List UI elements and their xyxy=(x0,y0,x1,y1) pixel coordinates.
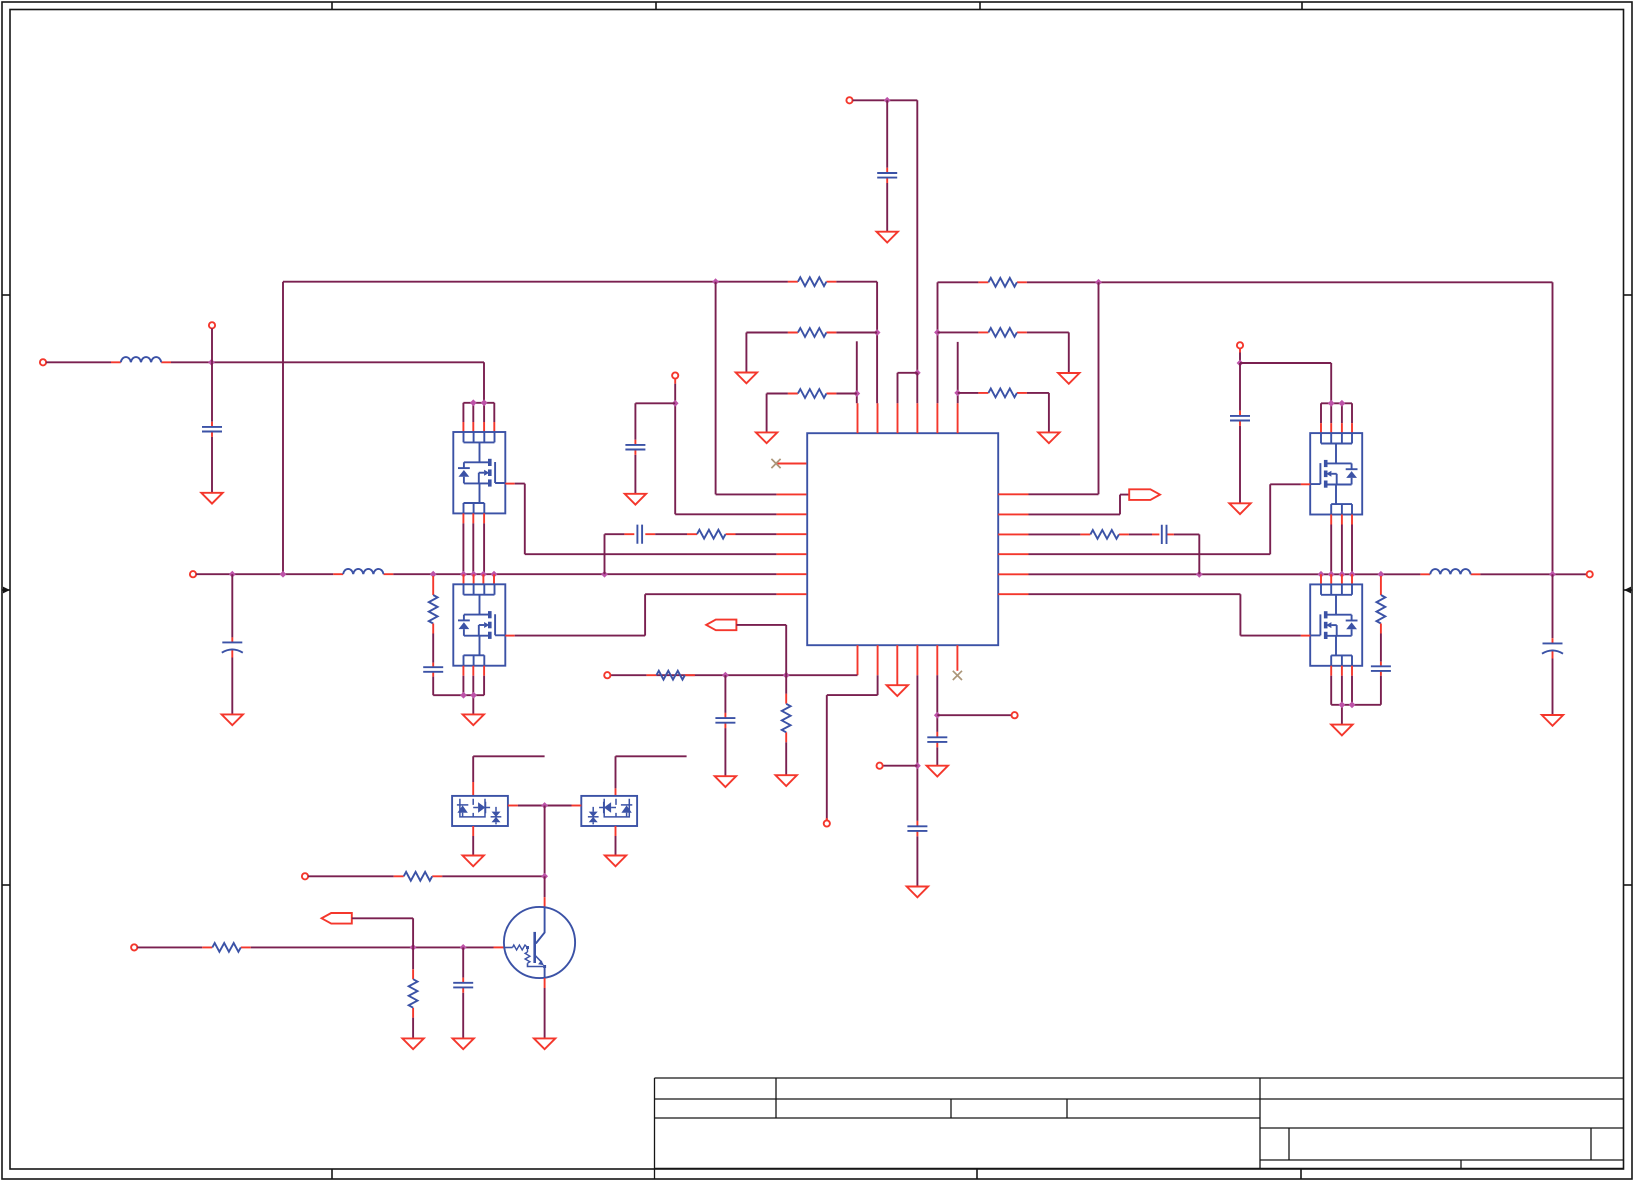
junction right bus q4 pin1 xyxy=(1318,571,1325,578)
wire P13 to resistor xyxy=(137,946,202,948)
capacitor C-bg xyxy=(453,983,473,988)
port P8 xyxy=(604,672,610,678)
wire C7 to bus corner xyxy=(1174,534,1199,574)
U1 bottom pin B4 xyxy=(916,645,918,675)
resistor R-row2-right xyxy=(988,328,1017,337)
wire R1 column vertical xyxy=(1029,282,1099,494)
resistor R-row2-right lead red xyxy=(978,331,1027,333)
capacitor CB1 leads red xyxy=(724,713,726,728)
wire diode link down to collector row xyxy=(544,806,546,877)
resistor R-row3-left xyxy=(798,389,827,398)
transistor Q3 upper-right MOSFET xyxy=(1310,433,1362,514)
port P5 red stub xyxy=(674,379,676,384)
wire row2-right to ground corner xyxy=(1027,332,1069,373)
transistor Q4 lower-right MOSFET xyxy=(1310,584,1362,665)
Q5 base pin red xyxy=(494,946,505,948)
junction at top cap xyxy=(884,97,891,104)
resistor R-B1b vertical xyxy=(782,704,791,733)
snubber resistor R-sn-left xyxy=(429,595,438,624)
ground row2-left xyxy=(736,373,757,384)
junction B1 row at cap xyxy=(722,672,729,679)
wire pin B2 to port P9 xyxy=(827,675,878,820)
wire top-right bus vertical to pin5 xyxy=(937,282,939,403)
series cap C4 leads red xyxy=(624,533,655,535)
junction pin4 jog xyxy=(914,369,921,376)
wire flag to B1 row xyxy=(736,625,786,675)
junction right rail b xyxy=(1349,701,1356,708)
Q5 emitter pin red xyxy=(544,978,546,988)
wire pin C net vertical xyxy=(675,384,776,515)
border tick top x=980 xyxy=(979,2,981,10)
wire cap C1 branch xyxy=(211,362,213,421)
wire pin6 stub vertical xyxy=(957,342,959,403)
wire C6 branch xyxy=(1552,574,1554,638)
U1 top pin 3 xyxy=(897,403,899,433)
wire pinB vertical xyxy=(716,282,777,495)
junction B5 at port P11 xyxy=(934,712,941,719)
inductor L1 leads red xyxy=(111,361,171,363)
net flag left-pointing low xyxy=(322,913,352,924)
capacitor C3 xyxy=(625,445,645,450)
ground row2-right xyxy=(1058,373,1079,384)
snubber resistor R-sn-right xyxy=(1377,595,1386,624)
U1 right pin R2 xyxy=(998,513,1028,515)
capacitor C3 leads red xyxy=(634,440,636,455)
wire top supply vertical down to pin4 jog xyxy=(916,100,918,373)
U1 left pin E xyxy=(776,553,806,555)
wire R-col to collector node xyxy=(442,875,544,877)
capacitor C5 leads red xyxy=(1239,411,1241,426)
wire pin B4 vertical xyxy=(916,675,918,821)
transistor Q5 digital BJT xyxy=(504,907,575,978)
D1 bottom pin red xyxy=(472,826,474,836)
U1 top pin 2 xyxy=(877,403,879,433)
diode pack D2 (mirrored) xyxy=(581,796,637,826)
wire cap C5 branch xyxy=(1239,363,1241,411)
junction row1-right at R1 column xyxy=(1095,279,1102,286)
port P5 xyxy=(672,372,678,378)
U1 right pin R5 xyxy=(998,573,1028,575)
upper-left MOSFET gate jog wire xyxy=(463,403,494,422)
inductor L2 leads red xyxy=(333,573,393,575)
wire jog to pin3 xyxy=(898,373,918,403)
border tick bottom x=977 xyxy=(976,1169,978,1179)
junction gate jog d xyxy=(1339,400,1346,407)
resistor R-row2-left xyxy=(798,328,827,337)
wire base resistor drop xyxy=(412,947,414,969)
U1 top pin 6 xyxy=(957,403,959,433)
wire row3-left xyxy=(767,393,788,395)
ground under pin B3 xyxy=(887,685,908,696)
D1 right pin red xyxy=(508,805,518,807)
wire res RB2 branch xyxy=(785,675,787,694)
Q2 bottom pins red xyxy=(463,666,484,676)
border arrow marker right xyxy=(1624,587,1632,594)
capacitor C2 leads red xyxy=(231,637,233,657)
snubber capacitor C-sn-left xyxy=(423,667,443,672)
wire CB5 to ground xyxy=(936,747,938,765)
ground under C1 xyxy=(201,493,222,504)
wire P10 to B4 xyxy=(883,765,918,767)
U1 bottom pin B3 xyxy=(896,645,898,685)
port P6 red stub xyxy=(1239,348,1241,352)
junction row3-left right end xyxy=(853,390,860,397)
border tick top x=656 xyxy=(655,2,657,10)
port P12 collector row xyxy=(302,873,308,879)
resistor R-col leads red xyxy=(394,875,443,877)
ground under top cap xyxy=(877,232,898,243)
ground under D2 xyxy=(605,856,626,867)
junction bottom rail b xyxy=(470,692,477,699)
capacitor C-top xyxy=(877,173,897,178)
transistor Q2 lower-left MOSFET xyxy=(453,584,505,665)
junction mid bus q2 pin1 xyxy=(460,571,467,578)
resistor R-row1-right lead red xyxy=(978,281,1027,283)
junction row3-right left end xyxy=(954,390,961,397)
no-connect X on U1 bottom pin B6 xyxy=(953,671,962,680)
snubber C leads red xyxy=(432,663,434,677)
wire C2 branch xyxy=(231,574,233,637)
wire snubber right C to rail xyxy=(1331,676,1381,705)
title block frame xyxy=(655,1078,1624,1179)
wire top cap upper lead xyxy=(886,100,888,168)
wire P2 down xyxy=(211,328,213,362)
junction base bus at cap xyxy=(460,944,467,951)
wire row2-right xyxy=(938,331,979,333)
series resistor R-R3 leads red xyxy=(1080,533,1129,535)
junction mid bus at RC row xyxy=(601,571,608,578)
diode pack D1 xyxy=(452,796,508,826)
ground under C-bg xyxy=(453,1038,474,1049)
wire base cap drop xyxy=(462,947,464,977)
wire flag to base bus xyxy=(352,918,413,947)
inductor L1 xyxy=(121,357,161,362)
resistor R-row1-left xyxy=(798,277,827,286)
junction mid bus at snubber xyxy=(430,571,437,578)
wire snubber right R to C xyxy=(1380,634,1382,662)
capacitor C6 polarized xyxy=(1542,643,1563,653)
wire C2 to ground xyxy=(231,658,233,715)
ground under R-B1b xyxy=(776,775,797,786)
wire R-B1 to port P8 xyxy=(610,674,646,676)
border tick bottom x=1301 xyxy=(1300,1169,1302,1179)
wires Q3 bottom pins to mid bus xyxy=(1331,525,1352,575)
capacitor CB4 leads red xyxy=(916,821,918,836)
wire B5 to port P11 xyxy=(937,714,1011,716)
U1 left pin B xyxy=(776,493,806,495)
transistor Q1 upper-left MOSFET xyxy=(453,432,505,513)
upper-left MOSFET top pins red xyxy=(463,422,494,432)
ground under C6 xyxy=(1542,715,1563,726)
op IC U1 xyxy=(807,433,998,645)
capacitor C6 leads red xyxy=(1552,638,1554,658)
inductor L2 xyxy=(343,569,383,574)
wire pin R3 RC row xyxy=(1029,533,1081,535)
junction right input node xyxy=(1237,360,1244,367)
U1 bottom pin B1 xyxy=(857,645,859,675)
wire D1 to D2 link xyxy=(518,805,572,807)
junction gate jog c xyxy=(1328,400,1335,407)
D2 bottom pin red xyxy=(615,826,617,836)
wire Q4 out to pin R6 xyxy=(1029,594,1301,635)
wire snubber R to C xyxy=(432,634,434,663)
wire pin R2 to flag xyxy=(1029,495,1130,515)
resistor R-row2-left lead red xyxy=(788,332,837,334)
ground under Q5 emitter xyxy=(534,1038,555,1049)
junction pin C cap branch xyxy=(672,400,679,407)
no-connect X on U1 left pin xyxy=(771,459,780,468)
port P6 right input xyxy=(1237,342,1243,348)
junction right bus q4 pin3 xyxy=(1339,571,1346,578)
net flag right-pointing xyxy=(1129,489,1160,500)
snubber R lead red bottom xyxy=(432,624,434,634)
port P9 xyxy=(824,820,830,826)
border tick top x=332 xyxy=(331,2,333,10)
port P13 base row xyxy=(131,944,137,950)
U1 right pin R3 xyxy=(998,533,1028,535)
wire collector down to Q5 xyxy=(544,876,546,897)
wire D1 bottom to ground xyxy=(472,836,474,856)
wire snubber C to bottom rail xyxy=(433,677,484,696)
junction right rail a xyxy=(1339,701,1346,708)
wire P1 to inductor xyxy=(46,361,111,363)
wire right input to gate corner xyxy=(1240,363,1331,403)
ground under C2 xyxy=(222,714,243,725)
D1 top pin red xyxy=(472,782,474,796)
series resistor R-D xyxy=(697,530,726,539)
junction right bus at vertical drop xyxy=(1549,571,1556,578)
U1 left pin D xyxy=(776,533,806,535)
wire R-D to pin D xyxy=(736,533,777,535)
border tick right y=295 xyxy=(1624,294,1633,296)
capacitor C-bg leads red xyxy=(462,978,464,993)
resistor R-row3-right xyxy=(988,389,1017,398)
U1 right pin R6 xyxy=(998,593,1028,595)
junction right bus at snubber xyxy=(1378,571,1385,578)
wire C5 to ground xyxy=(1239,426,1241,503)
ground under CB4 xyxy=(907,887,928,898)
junction diode link xyxy=(541,802,548,809)
Q4 bottom pins red xyxy=(1331,666,1352,676)
Q1 source out pin red xyxy=(505,483,514,485)
resistor R-base leads red xyxy=(202,946,251,948)
border arrow marker left xyxy=(2,587,10,594)
U1 left pin C xyxy=(776,513,806,515)
wire cap CB1 branch xyxy=(724,675,726,713)
port P11 xyxy=(1012,712,1018,718)
resistor R-B1 leads red xyxy=(646,674,695,676)
lower-left MOSFET top pins red xyxy=(464,574,495,584)
U1 bottom pin B5 xyxy=(936,645,938,675)
wires Q2 bottom pins to rail xyxy=(463,676,484,715)
border tick left y=885 xyxy=(2,884,10,886)
capacitor CB1 xyxy=(715,718,735,723)
wire P6 to junction xyxy=(1239,353,1241,364)
resistor R-row1-left lead red xyxy=(788,281,837,283)
wires Q4 bottom pins to rail xyxy=(1331,676,1352,725)
wire L1 to gate corner xyxy=(171,362,484,403)
Q2 source out pin red xyxy=(505,635,514,637)
resistor R-B1b leads red xyxy=(785,694,787,743)
wire R-R3 to C7 xyxy=(1129,533,1152,535)
border tick bottom x=332 xyxy=(331,1169,333,1179)
snubber R lead red top xyxy=(432,576,434,595)
series resistor R-D leads red xyxy=(687,533,736,535)
U1 left pin G xyxy=(776,593,806,595)
D2 left pin red xyxy=(572,805,582,807)
snubber R lead red top right xyxy=(1380,576,1382,595)
wire mid-right bus xyxy=(1029,573,1421,575)
border tick left y=295 xyxy=(2,294,10,296)
ground under CB5 xyxy=(927,766,948,777)
junction base bus at flag xyxy=(410,944,417,951)
wire cap C3 branch xyxy=(635,403,675,439)
capacitor CB5 xyxy=(927,737,947,742)
wire base bus xyxy=(251,946,494,948)
inductor L3 xyxy=(1430,569,1470,574)
wire mid-left bus to pin F xyxy=(393,573,776,575)
ground row3-left xyxy=(756,432,777,443)
junction bottom rail a xyxy=(460,692,467,699)
junction collector node xyxy=(541,873,548,880)
wire CB1 to ground xyxy=(724,728,726,776)
wire C3 to ground xyxy=(634,455,636,494)
series cap C7 leads red xyxy=(1152,533,1174,535)
wire P12 to resistor xyxy=(308,875,394,877)
wire row2-left ground drop xyxy=(745,333,747,373)
wire C4 to R xyxy=(655,533,687,535)
capacitor C2 polarized xyxy=(222,642,243,652)
port P3 mid-left bus xyxy=(190,571,196,577)
junction row2-left right end xyxy=(874,329,881,336)
lower-right MOSFET top pins red xyxy=(1321,574,1352,584)
Q1 bottom pins red xyxy=(463,513,484,523)
wire D2 bottom to ground xyxy=(615,836,617,856)
junction mid bus at C2 xyxy=(229,571,236,578)
wire row2-left right segment xyxy=(836,332,877,334)
resistor R-row3-right lead red xyxy=(978,392,1027,394)
capacitor CB4 xyxy=(907,826,927,831)
junction row2-right left end xyxy=(934,329,941,336)
Q3 bottom pins red xyxy=(1331,515,1352,525)
wire C1 to ground xyxy=(211,437,213,493)
wire row1-right to far corner xyxy=(1027,282,1553,574)
Q3 source out pin red xyxy=(1301,483,1310,485)
U1 left pin F xyxy=(776,573,806,575)
Q5 collector pin red xyxy=(544,897,546,907)
junction mid bus q2 pin4 xyxy=(491,571,498,578)
series capacitor C4 xyxy=(637,525,642,544)
junction left input node xyxy=(208,359,215,366)
ground under D1 xyxy=(463,856,484,867)
wire pin B5 vertical xyxy=(936,675,938,732)
wire row3-left ground drop xyxy=(766,394,768,433)
snubber C leads red right xyxy=(1380,662,1382,676)
wire jog to pin4 xyxy=(916,373,918,403)
border tick top x=1302 xyxy=(1301,2,1303,10)
junction right bus q4 pin4 xyxy=(1349,571,1356,578)
resistor R-col xyxy=(404,872,433,881)
wire row3-left right segment xyxy=(836,393,856,395)
resistor R-row3-left lead red xyxy=(788,393,837,395)
ground under R-bg xyxy=(402,1038,423,1049)
ground under C3 xyxy=(625,494,646,505)
wire emitter to ground xyxy=(544,988,546,1038)
wire C-bg to ground xyxy=(462,993,464,1039)
port P1 left input xyxy=(40,359,46,365)
snubber R lead red bottom right xyxy=(1380,624,1382,634)
wire Q1 out to pin E xyxy=(515,484,777,555)
port P10 xyxy=(877,763,883,769)
ground under CB1 xyxy=(715,776,736,787)
wire row2-left xyxy=(746,332,788,334)
port P4 top supply xyxy=(846,97,852,103)
wire top cap lower lead xyxy=(886,183,888,232)
wire C6 to ground xyxy=(1552,659,1554,716)
wire top-left bus xyxy=(283,281,788,283)
series capacitor C7 xyxy=(1162,525,1167,544)
wire pin1 stub vertical xyxy=(856,341,858,403)
diode pack D1 top stub wire xyxy=(473,756,544,782)
capacitor CB5 leads red xyxy=(936,732,938,747)
wire row3-right to ground corner xyxy=(1027,393,1049,433)
resistor R-row1-right xyxy=(988,278,1017,287)
wire R-B1b to ground xyxy=(785,742,787,775)
junction right bus at RC xyxy=(1196,571,1203,578)
ground under Q4 xyxy=(1331,725,1352,736)
diode pack D2 top stub wire xyxy=(616,756,687,788)
capacitor C5 xyxy=(1230,416,1250,421)
wire top-left bus drop to mid bus xyxy=(282,282,284,575)
junction mid bus q2 pin3 xyxy=(480,571,487,578)
wire R-bg to ground xyxy=(412,1018,414,1039)
port P2 above xyxy=(209,322,215,328)
U1 top pin 4 xyxy=(916,403,918,433)
wire RC row corner xyxy=(605,534,625,574)
border tick right y=885 xyxy=(1624,884,1633,886)
upper-right MOSFET top pins red xyxy=(1321,423,1352,433)
snubber capacitor C-sn-right xyxy=(1371,666,1391,671)
capacitor C1 leads red xyxy=(211,422,213,437)
junction B4 at port P10 xyxy=(914,762,921,769)
junction gate jog b xyxy=(481,399,488,406)
ground under Q2 xyxy=(463,714,484,725)
series resistor R-R3 xyxy=(1090,530,1119,539)
inductor L3 leads red xyxy=(1420,573,1480,575)
ground under C5 xyxy=(1229,503,1250,514)
port P7 right output xyxy=(1587,571,1593,577)
D2 top pin red xyxy=(615,788,617,796)
capacitor C-top lead red xyxy=(886,168,888,183)
U1 top pin 1 xyxy=(857,403,859,433)
junction top-left bus at pinB column xyxy=(712,278,719,285)
U1 bottom pin B2 xyxy=(877,645,879,675)
capacitor C1 xyxy=(202,427,222,432)
wire mid-left bus xyxy=(196,573,333,575)
U1 right pin R1 xyxy=(998,493,1028,495)
wire pin B1 row xyxy=(656,674,857,676)
upper-right MOSFET gate jog wire xyxy=(1321,403,1352,423)
wire CB4 to ground xyxy=(916,836,918,886)
resistor R-bg vertical xyxy=(409,979,418,1008)
wire row3-right xyxy=(958,392,979,394)
wire port P4 to junction xyxy=(853,99,918,101)
resistor R-B1 xyxy=(656,671,685,680)
junction right bus q4 pin2 xyxy=(1328,571,1335,578)
wire top-right bus xyxy=(938,281,979,283)
junction mid bus q2 pin2 xyxy=(470,571,477,578)
U1 bottom pin B6 xyxy=(956,645,958,671)
